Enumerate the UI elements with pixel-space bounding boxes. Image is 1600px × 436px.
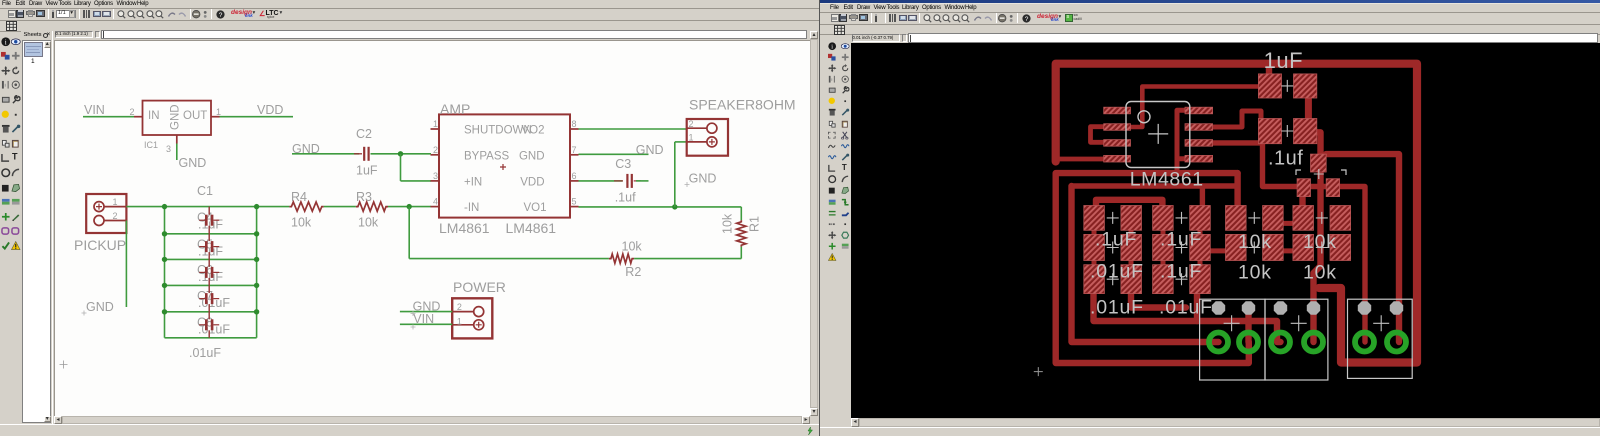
svg-text:1: 1 [457,317,462,327]
svg-text:1: 1 [433,119,438,129]
svg-text:5: 5 [572,197,577,207]
svg-text:4: 4 [433,197,438,207]
svg-text:.01uF: .01uF [1090,261,1144,283]
svg-text:VDD: VDD [257,103,283,117]
svg-text:6: 6 [572,171,577,181]
svg-text:R3: R3 [356,190,372,204]
svg-text:?: ? [1024,16,1028,23]
svg-text:GND: GND [86,300,114,314]
svg-text:i: i [831,43,833,50]
svg-text:8: 8 [572,119,577,129]
svg-text:.01uF: .01uF [189,346,221,360]
svg-text:?: ? [218,12,222,19]
svg-text:1: 1 [689,133,694,143]
svg-text:C1: C1 [197,184,213,198]
svg-text:3: 3 [166,144,171,154]
svg-text:GND: GND [519,150,545,162]
svg-text:VO2: VO2 [521,125,544,137]
svg-text:GND: GND [689,172,717,186]
svg-text:VIN: VIN [413,312,434,326]
svg-text:3: 3 [433,171,438,181]
svg-text:R1: R1 [748,216,762,232]
svg-text:10k: 10k [358,216,379,230]
svg-text:BYPASS: BYPASS [464,150,509,162]
svg-text:VIN: VIN [84,103,105,117]
svg-text:C2: C2 [356,127,372,141]
svg-text:POWER: POWER [453,279,506,295]
svg-text:.1uF: .1uF [1095,229,1137,251]
svg-text:-IN: -IN [464,202,479,214]
svg-text:2: 2 [130,107,135,117]
svg-text:2: 2 [689,119,694,129]
svg-text:10k: 10k [721,213,735,234]
svg-text:GND: GND [636,143,664,157]
svg-text:10k: 10k [1303,231,1337,253]
svg-text:i: i [5,38,7,46]
svg-text:1: 1 [113,197,118,207]
svg-text:PICKUP: PICKUP [74,237,126,253]
svg-text:10k: 10k [1238,231,1272,253]
svg-text:LM4861: LM4861 [1130,169,1204,191]
svg-text:.01uF: .01uF [1090,297,1144,319]
svg-text:SPEAKER8OHM: SPEAKER8OHM [689,97,796,113]
svg-text:10k: 10k [622,240,643,254]
svg-text:IN: IN [148,110,160,122]
svg-text:.1uf: .1uf [1268,148,1303,170]
svg-text:7: 7 [572,145,577,155]
svg-text:2: 2 [113,211,118,221]
svg-text:.1uf: .1uf [615,191,636,205]
svg-text:2: 2 [457,302,462,312]
svg-text:IC1: IC1 [144,140,158,150]
svg-text:1uF: 1uF [356,164,378,178]
svg-text:LM4861: LM4861 [439,220,490,236]
svg-text:GND: GND [179,156,207,170]
svg-text:VDD: VDD [520,176,544,188]
svg-text:10k: 10k [1238,262,1272,284]
svg-text:OUT: OUT [183,110,207,122]
svg-text:.1uF: .1uF [1160,229,1202,251]
svg-text:+IN: +IN [464,176,482,188]
svg-text:R2: R2 [625,265,641,279]
svg-text:C3: C3 [615,157,631,171]
svg-text:LM4861: LM4861 [506,220,557,236]
svg-text:10k: 10k [291,216,312,230]
svg-text:.1uF: .1uF [198,217,223,231]
svg-text:1uF: 1uF [1264,48,1303,73]
svg-text:2: 2 [433,145,438,155]
svg-text:1: 1 [216,107,221,117]
svg-text:GND: GND [170,104,182,130]
svg-text:VO1: VO1 [523,202,546,214]
svg-text:AMP: AMP [440,101,470,117]
svg-text:.1uF: .1uF [1160,261,1202,283]
svg-text:10k: 10k [1303,262,1337,284]
